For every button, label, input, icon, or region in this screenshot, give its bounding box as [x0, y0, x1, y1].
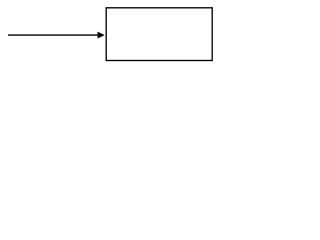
wire (arrow shaft): [8, 34, 99, 36]
arrowhead: [98, 32, 104, 38]
box (empty rectangle node): [106, 8, 212, 61]
